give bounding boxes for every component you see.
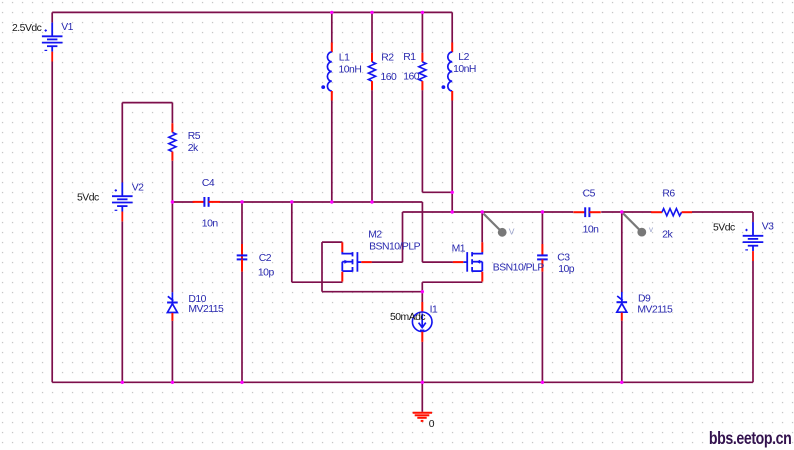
wire L1 bottom [331,101,333,203]
resistor R2 body [368,53,375,90]
node rail R5/D10 [171,200,174,203]
wire left rail down to M1 gate [421,202,423,262]
wire R5 top [171,103,173,124]
svg-text:bbs.eetop.cn: bbs.eetop.cn [709,428,792,448]
wire C2 bottom [241,272,243,383]
wire right rail c R6 to V3 [692,211,753,213]
wire M1 source horizontal [422,281,482,283]
node rail R2 [370,200,373,203]
resistor R5 body [169,123,176,160]
svg-text:C5: C5 [583,189,596,200]
wire ground stem [421,382,423,412]
probe V at M1 drain [484,214,507,237]
wire left rail segment b [219,201,422,203]
svg-text:C2: C2 [259,253,272,264]
wire C3 bottom [541,272,543,383]
wire R1 top [421,12,423,52]
voltage source V3 [743,222,764,261]
wire M2 source horizontal [292,281,343,283]
svg-text:L2: L2 [458,52,469,63]
node rail M2 source [290,200,293,203]
wire to M1 gate [422,261,453,263]
node L2 rail [451,210,454,213]
wire V2 to R5 horizontal [122,102,172,104]
node rail C2 [240,200,243,203]
svg-text:10p: 10p [558,264,575,275]
voltage source V2 [112,183,133,222]
wire bottom rail [52,381,753,383]
wire R5 to rail [171,161,173,202]
svg-text:D9: D9 [638,294,651,305]
wire I1 bottom [421,342,423,382]
svg-text:R6: R6 [662,189,675,200]
wire M1 drain [481,212,483,242]
svg-text:I1: I1 [430,305,438,316]
node M1 drain probe [481,210,484,213]
node C3 C5 [541,210,544,213]
diode D9 [617,292,628,321]
wire M2 source vertical [291,202,293,282]
svg-text:V2: V2 [132,182,144,193]
node tail I1 [421,290,424,293]
wire C2 top [241,202,243,244]
ground [413,413,432,421]
wire D10 bottom [171,321,173,382]
wire D9 top [621,212,623,292]
wire M2 box left [321,242,323,292]
wire right rail b [601,211,651,213]
resistor R6 body [651,209,692,216]
svg-text:5Vdc: 5Vdc [713,222,735,233]
svg-text:10p: 10p [258,268,275,279]
svg-text:L1: L1 [339,52,350,63]
svg-text:10nH: 10nH [453,64,476,75]
node R2 top [370,11,373,14]
wire left rail segment a [172,201,194,203]
node D9 probe [620,210,623,213]
node R1 top [421,11,424,14]
wire top rail [52,11,452,13]
node bottom I1 ground [421,381,424,384]
svg-text:C4: C4 [202,178,215,189]
wire V2 bottom [121,222,123,383]
wire L1 top [331,12,333,42]
wire M2 gate vertical [402,212,404,262]
capacitor C2 [237,244,248,272]
node L1 top [330,11,333,14]
wire M2 gate horizontal [372,261,403,263]
node rail L1 [330,200,333,203]
current source I1 [412,302,432,342]
node bottom C3 [541,381,544,384]
wire M2 box top [322,241,342,243]
svg-text:V: V [509,227,515,237]
node bottom D10 [171,381,174,384]
wire V2 vertical top [121,103,123,183]
svg-text:BSN10/PLP: BSN10/PLP [493,262,545,273]
svg-text:V3: V3 [762,221,774,232]
wire V3 bottom [752,261,754,383]
wire I1 top [421,292,423,302]
wire L2 top [451,12,453,42]
wire V1 top lead [51,12,53,22]
wire C3 top [541,212,543,244]
svg-text:R1: R1 [403,52,416,63]
svg-text:R5: R5 [188,131,201,142]
probe V at D9 node [623,213,646,236]
wire V1 left vertical [51,62,53,383]
mosfet M2 [342,242,371,281]
capacitor C5 [573,207,600,217]
wire R2 bottom [371,90,373,202]
svg-text:MV2115: MV2115 [637,304,673,315]
wire L2 bottom [451,101,453,213]
wire rail to D10 [171,202,173,292]
resistor R1 body [419,53,426,90]
svg-text:R2: R2 [381,52,394,63]
svg-text:10n: 10n [583,224,600,235]
voltage source V1 [42,23,63,62]
wire R2 top [371,12,373,52]
inductor L1 [321,43,331,101]
svg-text:MV2115: MV2115 [188,304,224,315]
node bottom D9 [620,381,623,384]
node R1-L2 [451,191,454,194]
svg-text:50mAdc: 50mAdc [390,312,425,323]
wire R1 to L2 [422,191,452,193]
svg-text:V1: V1 [61,22,73,33]
svg-text:0: 0 [429,419,435,430]
wire M2 box bottom to tail [322,291,422,293]
wire right rail a [403,211,574,213]
diode D10 [167,292,178,321]
svg-text:BSN10/PLP: BSN10/PLP [369,242,421,253]
svg-text:M1: M1 [452,244,466,255]
mosfet M1 [453,242,482,281]
svg-text:2k: 2k [188,143,199,154]
wire D9 bottom [621,321,623,383]
capacitor C4 [193,197,220,207]
svg-text:10n: 10n [202,218,219,229]
svg-text:v: v [649,225,653,234]
svg-text:5Vdc: 5Vdc [77,193,99,204]
svg-text:M2: M2 [368,230,382,241]
svg-text:160: 160 [403,72,420,83]
node bottom C2 [240,381,243,384]
svg-text:2.5Vdc: 2.5Vdc [12,23,42,34]
wire V3 top [752,212,754,222]
svg-text:2k: 2k [662,229,673,240]
svg-text:10nH: 10nH [339,65,362,76]
node bottom V2 [121,381,124,384]
wire M1 source vertical [421,282,423,292]
svg-text:C3: C3 [557,252,570,263]
wire R1 bottom [421,90,423,192]
inductor L2 [442,43,453,101]
capacitor C3 [537,244,548,272]
svg-text:160: 160 [381,72,398,83]
